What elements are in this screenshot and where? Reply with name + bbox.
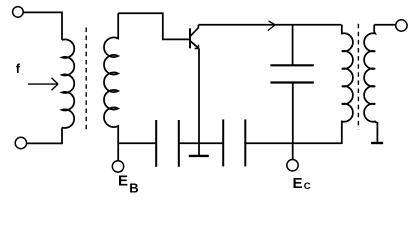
svg-text:E: E bbox=[118, 172, 128, 189]
terminal output right bbox=[396, 20, 407, 31]
ground bar right bbox=[371, 142, 383, 144]
node EB stub bbox=[117, 143, 119, 160]
transformer core dashed right bbox=[357, 24, 359, 130]
svg-text:B: B bbox=[129, 181, 138, 196]
ground bar middle bbox=[189, 155, 209, 157]
bottom rail segment C3 to output transformer bbox=[245, 122, 341, 143]
svg-text:C: C bbox=[304, 181, 311, 192]
terminal bottom-left input bbox=[15, 137, 26, 148]
transformer core dashed left bbox=[85, 28, 87, 133]
terminal EC bbox=[287, 160, 298, 171]
capacitor C2 plate left bbox=[155, 120, 157, 167]
inductor L1 primary left transformer bbox=[62, 39, 74, 128]
capacitor C2 plate right bbox=[178, 120, 180, 167]
transistor Q1 collector bbox=[191, 25, 199, 36]
wire emitter down to ground bbox=[198, 49, 200, 156]
current arrow on collector rail bbox=[268, 21, 275, 31]
terminal top-left input bbox=[13, 7, 24, 18]
inductor L3 primary output transformer bbox=[342, 25, 353, 123]
wire collector top rail bbox=[198, 24, 341, 26]
node EC stub bbox=[292, 143, 294, 159]
inductor L2 secondary left transformer bbox=[104, 13, 118, 143]
wire L2 top to transistor base bbox=[118, 13, 189, 39]
capacitor C1 top lead bbox=[292, 25, 294, 66]
transistor Q1 emitter bbox=[191, 41, 199, 48]
capacitor C3 plate right bbox=[244, 119, 246, 166]
svg-text:E: E bbox=[293, 175, 303, 192]
capacitor C3 plate left bbox=[222, 119, 224, 166]
svg-text:f: f bbox=[16, 62, 21, 76]
bottom rail segment C2 to C3 bbox=[179, 142, 223, 144]
arrow f into L1 bbox=[28, 78, 58, 90]
transistor Q1 base bar bbox=[189, 28, 191, 48]
wire input top to coil L1 bbox=[23, 12, 62, 40]
wire coil L1 bottom to lower terminal bbox=[27, 128, 62, 144]
bottom rail segment EB to C2 bbox=[118, 142, 156, 144]
capacitor C1 bottom lead bbox=[292, 83, 294, 144]
terminal EB bbox=[112, 161, 123, 172]
capacitor C1 plate bottom bbox=[270, 81, 313, 83]
capacitor C1 plate top bbox=[270, 64, 313, 66]
wire L4 top to output terminal bbox=[374, 24, 395, 26]
transistor Q1 emitter arrowhead bbox=[195, 45, 199, 49]
inductor L4 secondary output transformer bbox=[364, 25, 377, 142]
